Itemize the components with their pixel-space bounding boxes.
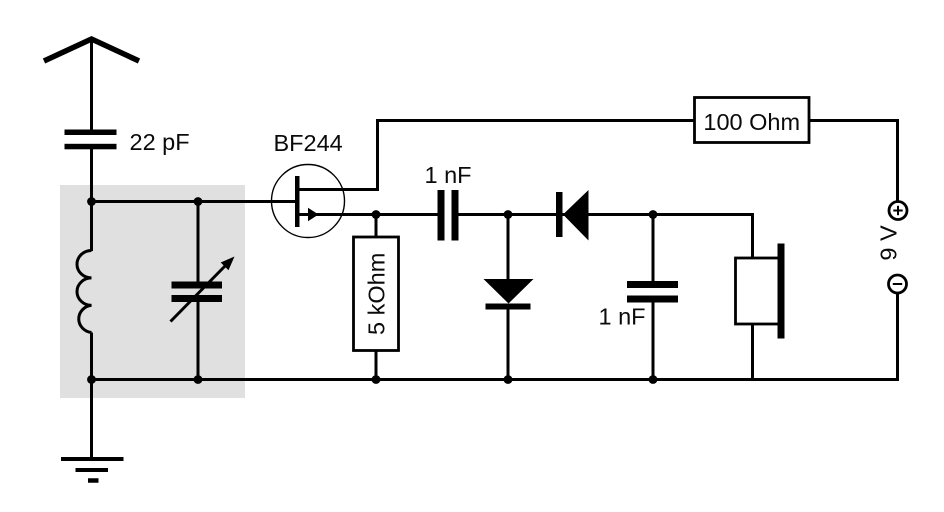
resistor R2 100 Ohm (695, 98, 810, 143)
label BF244 (274, 130, 343, 156)
node diode top junction dot (504, 210, 513, 219)
wire antenna to C1 (90, 41, 93, 131)
capacitor C3 1 nF plates (627, 281, 678, 303)
wire diode D1 branch top (507, 215, 510, 281)
wire earphone top (751, 213, 754, 259)
capacitor C1 22 pF plates (65, 130, 117, 150)
variable capacitor plates (172, 282, 223, 303)
label 1 nF bottom (599, 304, 646, 330)
svg-text:100 Ohm: 100 Ohm (703, 109, 800, 135)
svg-text:9 V: 9 V (876, 225, 902, 261)
battery minus terminal (889, 275, 907, 293)
node C3 bottom junction dot (649, 375, 658, 384)
wire capacitor C3 branch top (652, 215, 655, 283)
wire C1 to node A (90, 149, 93, 203)
label 1 nF top (425, 162, 472, 188)
node varcap top junction dot (194, 197, 203, 206)
label 22 pF (130, 129, 190, 155)
bottom rail wire (92, 378, 898, 381)
wire tank bottom to ground (90, 380, 93, 460)
diode D2 (series, pointing left) (556, 190, 589, 241)
earphone body (736, 258, 780, 324)
diode D1 (shunt, pointing down) (484, 279, 534, 310)
wire capacitor C3 branch bottom (652, 302, 655, 381)
wire diode D1 branch bottom (507, 309, 510, 381)
wire node A to inductor (90, 200, 93, 251)
node B junction dot (87, 375, 96, 384)
wire tank top rail (node A to gate) (92, 200, 296, 203)
transistor Q1 source wire (298, 213, 378, 216)
antenna (44, 39, 139, 61)
main signal wire source node to C2 (376, 213, 438, 216)
svg-text:1 nF: 1 nF (599, 304, 646, 330)
wire 5 kOhm resistor top (375, 215, 378, 239)
wire battery minus to bottom rail (896, 293, 899, 382)
node source junction dot (372, 210, 381, 219)
wire variable capacitor bottom (197, 302, 200, 381)
main signal wire C2 to earphone (459, 213, 753, 216)
inductor L1 (77, 251, 92, 333)
transistor Q1 source arrow (308, 208, 319, 221)
resistor R1 5 kOhm (354, 237, 399, 351)
svg-text:1 nF: 1 nF (425, 162, 472, 188)
wire variable capacitor top (197, 202, 200, 283)
svg-text:22 pF: 22 pF (130, 129, 190, 155)
transistor Q1 BF244 circle (272, 165, 345, 238)
node C3 top junction dot (649, 210, 658, 219)
variable capacitor arrow (171, 257, 235, 322)
node A junction dot (87, 197, 96, 206)
top rail wire right (809, 119, 899, 122)
transistor Q1 drain wire (298, 119, 378, 190)
wire 5 kOhm resistor bottom (375, 351, 378, 382)
label 5 kOhm (364, 253, 390, 335)
battery plus terminal (889, 202, 907, 220)
capacitor C2 1 nF plates (438, 190, 459, 241)
wire inductor to node B (90, 333, 93, 382)
wire right rail to battery plus (896, 119, 899, 202)
node diode bottom junction dot (504, 375, 513, 384)
top rail wire left (376, 119, 695, 122)
wire earphone bottom (751, 324, 754, 381)
svg-text:BF244: BF244 (274, 130, 343, 156)
node varcap bottom junction dot (194, 375, 203, 384)
svg-text:5 kOhm: 5 kOhm (364, 253, 390, 335)
node resistor bottom junction dot (372, 375, 381, 384)
tank circuit highlight box (60, 185, 245, 398)
earphone membrane bar (778, 244, 785, 339)
ground (61, 459, 124, 481)
label 100 Ohm (703, 109, 800, 135)
transistor Q1 channel bar (295, 176, 300, 227)
label 9 V (876, 225, 902, 261)
